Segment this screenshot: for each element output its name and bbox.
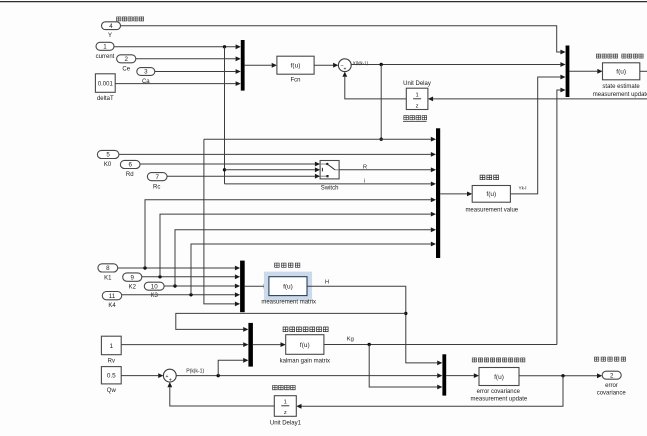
mux6 (error covariance inputs) <box>442 354 446 395</box>
svg-text:K0: K0 <box>104 162 112 168</box>
block Switch <box>320 161 339 192</box>
svg-text:7: 7 <box>155 174 159 181</box>
inport 6 Rd <box>120 160 140 178</box>
wire K2 to mux4 input2 <box>142 274 240 279</box>
svg-text:f(u): f(u) <box>486 191 496 198</box>
svg-text:f(u): f(u) <box>291 63 301 70</box>
label 系统测量值 (system measurement) <box>117 17 144 21</box>
wire error covariance to outport 2 <box>519 373 602 378</box>
block Fcn f(u) <box>277 56 314 83</box>
inport 3 Ca <box>137 68 155 85</box>
label 单位延迟 under Unit Delay <box>403 116 427 122</box>
wire Qw to sum2 <box>121 373 163 378</box>
junction K1 riser <box>143 266 146 269</box>
svg-text:Yk-l: Yk-l <box>519 186 527 191</box>
svg-text:Rd: Rd <box>126 172 134 178</box>
wire sum1 to mux2 input2 <box>351 62 565 67</box>
svg-text:K4: K4 <box>108 303 116 309</box>
junction current to switch control <box>223 168 226 171</box>
wire deltaT to mux1 input4 <box>115 81 241 86</box>
wire control into switch input2 <box>225 167 321 172</box>
svg-text:0.001: 0.001 <box>98 81 114 87</box>
sum2 circle <box>163 369 176 383</box>
label Kg <box>347 336 354 342</box>
svg-text:4: 4 <box>109 23 113 30</box>
block kalman gain matrix f(u) <box>280 335 330 365</box>
svg-text:kalman gain matrix: kalman gain matrix <box>280 358 330 364</box>
svg-text:Unit Delay: Unit Delay <box>403 81 431 87</box>
junction K2 riser <box>158 275 161 278</box>
label i <box>364 179 365 185</box>
svg-text:Rc: Rc <box>153 185 160 191</box>
svg-text:1: 1 <box>415 92 418 98</box>
wire mux3 to measurement value f(u) <box>440 192 472 197</box>
wire K2 riser to mux3 input6 <box>160 212 436 277</box>
inport 10 K3 <box>144 282 164 299</box>
svg-text:measurement value: measurement value <box>465 207 518 213</box>
svg-text:9: 9 <box>131 274 135 281</box>
svg-text:i: i <box>364 179 365 185</box>
junction X(k|k-1) <box>380 63 383 66</box>
label 卡尔曼增益矩阵 <box>283 327 328 332</box>
svg-text:f(u): f(u) <box>616 69 626 76</box>
svg-text:0.5: 0.5 <box>107 373 116 380</box>
svg-text:8: 8 <box>106 265 110 272</box>
svg-text:covariance: covariance <box>597 391 627 397</box>
wire feedback down to Unit Delay1 <box>296 376 563 409</box>
label H <box>325 279 329 285</box>
svg-text:Y: Y <box>108 33 112 39</box>
label P(k|k-1) <box>186 368 204 374</box>
sum1 circle <box>338 59 351 73</box>
svg-text:error covariance: error covariance <box>477 389 521 395</box>
svg-text:z: z <box>416 103 419 109</box>
wire current branch down to switch control and i line <box>224 47 226 184</box>
svg-text:1: 1 <box>284 400 287 406</box>
wire P branch up to mux5 input3 <box>218 358 248 376</box>
junction X at y139 <box>380 138 383 141</box>
wire current to mux1 input1 <box>114 44 241 49</box>
label 测量矩阵 <box>275 263 300 267</box>
label 协方差误差测量更新 <box>472 358 525 362</box>
wire mux1 to Fcn <box>245 63 277 68</box>
junction Kg drop <box>368 343 371 346</box>
inport 1 current <box>96 42 115 60</box>
svg-text:current: current <box>96 54 115 60</box>
wire sum2 to mux6 input2 <box>176 373 442 378</box>
wire port4 to mux2 input1 <box>121 26 566 55</box>
wire Kg drop to mux6 input3 <box>369 345 442 390</box>
block Unit Delay 1/z <box>403 81 431 110</box>
svg-text:+: + <box>169 377 172 383</box>
wire Unit Delay1 output to sum2 bottom <box>167 382 274 406</box>
wire K3 riser to mux3 input7 <box>175 227 436 286</box>
mux1 (state inputs) <box>241 40 245 91</box>
label 测量值 <box>480 175 498 180</box>
svg-text:f(u): f(u) <box>283 283 293 290</box>
constant 0.5 Qw <box>101 367 121 394</box>
block measurement matrix f(u) selected <box>261 272 316 306</box>
junction P branch <box>217 374 220 377</box>
wire Rd to switch input1 <box>140 162 320 167</box>
wire mux2 to state estimate f(u) <box>569 69 602 74</box>
wire Fcn to sum1 <box>314 63 338 68</box>
svg-text:H: H <box>325 279 329 285</box>
svg-text:f(u): f(u) <box>300 342 310 349</box>
junction H return <box>404 312 407 315</box>
svg-text:K1: K1 <box>104 275 112 281</box>
wire i line from current branch to mux3 input4 <box>225 182 437 187</box>
wire Kg to right riser <box>324 344 557 346</box>
label 协方差误差 <box>594 357 625 361</box>
wire X branch down x204 to mux4 input5 <box>204 139 240 306</box>
wire Rc to switch input3 <box>167 174 320 179</box>
svg-text:Qw: Qw <box>107 388 117 394</box>
wire Unit Delay output to sum1 bottom <box>342 72 406 99</box>
inport 2 Ce <box>117 55 136 73</box>
svg-text:Unit Delay1: Unit Delay1 <box>270 420 302 426</box>
wire X down to y139 <box>380 65 382 140</box>
svg-text:5: 5 <box>106 152 110 159</box>
svg-text:measurement update: measurement update <box>593 92 647 98</box>
constant 0.001 deltaT <box>95 74 115 102</box>
svg-text:6: 6 <box>128 162 132 169</box>
constant 1 Rv <box>101 336 121 364</box>
svg-text:measurement update: measurement update <box>471 396 528 402</box>
block measurement value f(u) <box>465 186 518 214</box>
outport 2 error covariance <box>597 371 627 397</box>
svg-text:11: 11 <box>109 293 116 300</box>
label 单位延迟 above Unit Delay1 <box>273 385 296 389</box>
wire K3 to mux4 input3 <box>164 284 240 289</box>
svg-text:2: 2 <box>124 56 128 63</box>
wire K4 to mux4 input4 <box>122 292 240 297</box>
inport 7 Rc <box>147 173 167 191</box>
canvas top border line <box>0 1 647 3</box>
junction K3 riser <box>173 284 176 287</box>
svg-text:3: 3 <box>144 69 148 76</box>
svg-text:K2: K2 <box>129 284 137 290</box>
label R <box>363 164 367 170</box>
wire switch output R to mux3 input3 <box>339 167 436 172</box>
svg-text:Switch: Switch <box>321 185 339 191</box>
inport 4 Y <box>102 22 121 39</box>
wire H return to mux5 input1 <box>176 313 406 331</box>
mux5 (kalman gain inputs) <box>248 323 253 367</box>
wire K1 to mux4 input1 <box>118 266 240 271</box>
mux3 (measurement inputs) <box>436 128 440 258</box>
junction error cov feedback <box>561 374 564 377</box>
svg-text:K3: K3 <box>151 293 159 299</box>
svg-text:f(u): f(u) <box>494 374 504 381</box>
inport 11 K4 <box>102 292 121 310</box>
inport 9 K2 <box>123 273 142 291</box>
wire K4 riser to mux3 input8 <box>191 242 436 295</box>
inport 8 K1 <box>98 264 118 282</box>
mux2 (state estimate inputs) <box>566 46 570 98</box>
svg-text:10: 10 <box>151 283 158 290</box>
svg-text:+: + <box>344 67 347 73</box>
wire H to mux6 input1 <box>307 286 442 365</box>
svg-text:1: 1 <box>103 44 107 51</box>
wire Rv to mux5 input2 <box>121 342 248 347</box>
svg-text:Ce: Ce <box>122 66 130 72</box>
svg-text:Rv: Rv <box>108 358 115 364</box>
wire mux5 to kalman gain f(u) <box>253 342 286 347</box>
label X(k|k-1) <box>353 60 369 65</box>
wire K1 riser to mux3 input5 <box>145 197 436 268</box>
wire Ce to mux1 input2 <box>136 56 241 61</box>
block error covariance f(u) <box>471 368 528 403</box>
wire Ca to mux1 input3 <box>155 69 241 74</box>
svg-text:state estimate: state estimate <box>602 84 640 90</box>
wire Yk to mux2 input3 <box>510 75 565 194</box>
inport 5 K0 <box>97 150 119 168</box>
wire y139 into mux3 input1 <box>204 137 436 142</box>
svg-text:Fcn: Fcn <box>290 77 300 83</box>
svg-text:1: 1 <box>110 343 114 350</box>
wire mux4 to measurement matrix <box>245 284 269 289</box>
wire K0 to mux3 input2 <box>119 152 436 157</box>
mux4 (measurement matrix inputs) <box>240 261 245 313</box>
wire Kg up right side to mux2 input4 <box>557 88 566 345</box>
svg-text:error: error <box>605 383 618 389</box>
svg-text:Kg: Kg <box>347 336 354 342</box>
junction current branch <box>223 45 226 48</box>
svg-text:2: 2 <box>610 372 614 379</box>
label 状态估计 测量更新 <box>596 54 643 58</box>
block Unit Delay1 1/z <box>270 396 302 427</box>
svg-text:deltaT: deltaT <box>97 96 114 102</box>
wire feedback from right edge into Unit Delay input <box>428 97 647 102</box>
svg-text:R: R <box>363 164 367 170</box>
block state estimate f(u) <box>593 63 647 98</box>
wire state estimate output to right edge <box>640 70 647 72</box>
svg-text:z: z <box>284 410 287 416</box>
wire mux6 to error covariance f(u) <box>446 373 479 378</box>
label Yk-1 <box>519 186 527 191</box>
svg-text:measurement matrix: measurement matrix <box>261 300 316 306</box>
svg-text:P(k|k-1): P(k|k-1) <box>186 368 204 374</box>
junction K4 riser <box>189 293 192 296</box>
